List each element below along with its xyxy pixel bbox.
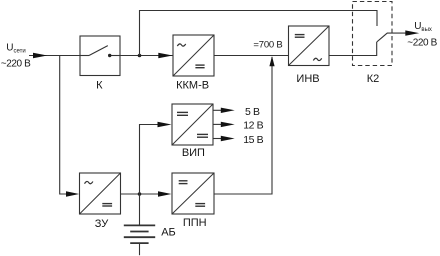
- svg-text:К2: К2: [367, 73, 380, 85]
- svg-text:=700 В: =700 В: [253, 40, 282, 51]
- arrowhead: into VIP: [158, 122, 172, 127]
- svg-text:~220 В: ~220 В: [407, 38, 437, 49]
- svg-text:ЗУ: ЗУ: [95, 218, 110, 230]
- svg-text:ККМ-В: ККМ-В: [176, 80, 209, 92]
- bypass rail to K2: [140, 11, 378, 56]
- wire: INV output to K2: [329, 42, 377, 56]
- VIP output 12V: [213, 123, 223, 125]
- arrowhead: into ZU: [66, 191, 79, 196]
- VIP output 15V: [213, 138, 223, 140]
- svg-text:АБ: АБ: [161, 226, 176, 238]
- switch blade K2: [377, 33, 388, 42]
- charger ZU (AC/DC): [80, 173, 121, 214]
- svg-text:ВИП: ВИП: [182, 147, 205, 159]
- svg-text:Uвых: Uвых: [414, 21, 432, 33]
- converter KKM-B (AC/DC): [173, 35, 214, 76]
- dc-dc VIP: [172, 104, 213, 145]
- arrowhead: into KKM-B: [158, 53, 172, 58]
- wire: riser to VIP: [140, 125, 161, 195]
- svg-text:ИНВ: ИНВ: [296, 73, 319, 85]
- inverter INV (DC/AC): [289, 26, 330, 66]
- dc-dc PPN: [172, 173, 214, 214]
- wire: mains input: [29, 55, 80, 57]
- VIP output 5V: [213, 109, 223, 111]
- label Uсети: [6, 43, 25, 55]
- svg-text:Uсети: Uсети: [6, 43, 25, 55]
- svg-text:5 В: 5 В: [245, 106, 260, 118]
- svg-text:ППН: ППН: [183, 217, 207, 229]
- svg-text:15 В: 15 В: [243, 134, 263, 146]
- arrowhead: into PPN: [158, 191, 172, 196]
- svg-text:~220 В: ~220 В: [1, 58, 31, 69]
- junction after K: [138, 54, 142, 58]
- wire: PPN riser to 700V bus: [214, 57, 272, 194]
- wire: output: [387, 32, 407, 34]
- junction battery tap: [138, 192, 142, 196]
- svg-text:К: К: [96, 80, 103, 92]
- wire: K to KKM-B: [120, 55, 173, 57]
- arrowhead: output: [405, 30, 419, 35]
- wire: branch down to ZU: [60, 56, 70, 195]
- contactor K: [80, 36, 120, 76]
- arrowhead: mains input: [33, 53, 47, 58]
- battery AB: [124, 194, 155, 255]
- contact dot K: [108, 54, 111, 57]
- arrowhead: up into bus: [269, 56, 274, 66]
- wire: ZU to PPN: [121, 193, 161, 195]
- svg-text:12 В: 12 В: [243, 120, 263, 132]
- wire: 700V bus: [214, 55, 289, 57]
- switch K2 dashed box: [353, 2, 393, 66]
